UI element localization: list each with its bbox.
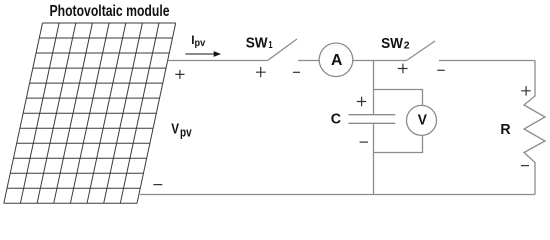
svg-text:Photovoltaic module: Photovoltaic module <box>50 3 170 20</box>
svg-text:SW: SW <box>381 36 403 52</box>
svg-text:A: A <box>331 52 342 69</box>
svg-text:pv: pv <box>180 126 192 140</box>
svg-text:C: C <box>331 112 341 128</box>
svg-text:V: V <box>418 112 427 129</box>
svg-text:R: R <box>500 122 511 138</box>
svg-text:2: 2 <box>404 40 410 51</box>
svg-text:SW: SW <box>246 35 268 51</box>
svg-text:pv: pv <box>195 38 206 49</box>
svg-text:1: 1 <box>268 40 273 51</box>
svg-text:V: V <box>171 121 179 138</box>
